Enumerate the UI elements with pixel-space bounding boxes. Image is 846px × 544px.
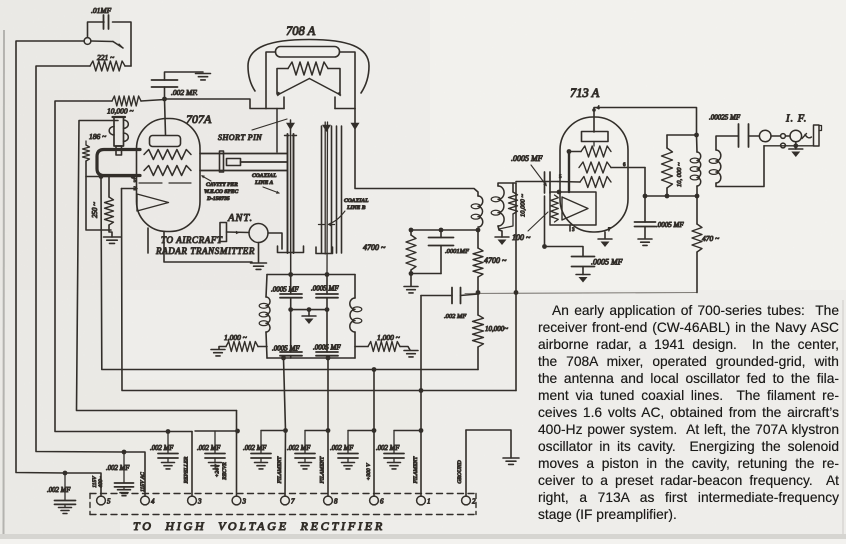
resistor R13 470 ohm body bbox=[692, 224, 702, 252]
node T7 rail tap bbox=[281, 356, 286, 361]
IF jack tip circle bbox=[790, 130, 802, 142]
coil L5 grid coil bbox=[498, 186, 504, 226]
svg-text:186 ~: 186 ~ bbox=[89, 132, 106, 141]
708A cathode tent right bbox=[309, 79, 340, 96]
scanner bottom edge band bbox=[0, 534, 846, 539]
svg-text:1: 1 bbox=[427, 498, 431, 506]
resistor 707A heater 2 bbox=[144, 166, 191, 176]
node 713A grid tie bbox=[567, 149, 572, 154]
wire L5 top bbox=[498, 183, 516, 186]
wire L3 bottom to rail bbox=[354, 332, 356, 358]
svg-text:1,000 ~: 1,000 ~ bbox=[377, 333, 400, 342]
resistor R1 221 ohm body bbox=[90, 61, 125, 71]
ground R5 bbox=[211, 350, 225, 356]
phone plug tip step bbox=[819, 126, 822, 131]
dashed terminal box bottom bbox=[90, 514, 476, 516]
capacitor C1 .01MF bbox=[104, 15, 109, 29]
node bus196 right bbox=[695, 194, 700, 199]
wire L2 top bbox=[266, 275, 267, 298]
capacitor C13 .002MF bypass T5 bbox=[64, 473, 66, 501]
svg-text:221 ~: 221 ~ bbox=[97, 53, 114, 62]
wire T1 stub to cap bbox=[394, 430, 421, 432]
708A leg short left bbox=[283, 97, 285, 109]
resistor R5 1000 ohm body bbox=[226, 342, 258, 352]
svg-text:.002 MF: .002 MF bbox=[47, 487, 71, 494]
terminal 4 circle bbox=[141, 496, 150, 505]
wire filter mid ground stem bbox=[308, 310, 310, 316]
wire filter mid rail bbox=[291, 309, 327, 311]
wire R1 right end to C1 branch bbox=[125, 65, 131, 67]
wire T6 stub to cap bbox=[348, 430, 374, 432]
terminal 3 circle bbox=[232, 496, 241, 505]
terminal switch pivot circle bbox=[84, 38, 91, 45]
wire C9 to cathode rail bbox=[544, 196, 546, 247]
svg-text:10, 000 ~: 10, 000 ~ bbox=[676, 162, 683, 187]
capacitor C18 .002MF bypass T8 bbox=[304, 431, 306, 454]
svg-text:10,000 ~: 10,000 ~ bbox=[520, 194, 527, 218]
708A leg bracket right bbox=[335, 108, 355, 110]
resistor 713A element 2 bbox=[579, 162, 611, 173]
wire C11 stem bbox=[644, 227, 646, 239]
wire T4 drop bbox=[124, 452, 145, 496]
svg-text:.0005 MF: .0005 MF bbox=[511, 154, 543, 163]
ground under cavity bbox=[104, 237, 121, 243]
node T4 cap tap bbox=[122, 450, 127, 455]
svg-text:.0005 MF: .0005 MF bbox=[591, 258, 623, 267]
wire bus L5 from R1 left down bbox=[36, 66, 124, 452]
node T7 junction bbox=[283, 428, 288, 433]
wire bus L6 from switch left and down bbox=[16, 41, 84, 473]
short pin inner bar bbox=[227, 159, 241, 166]
wire 707A cathode down to ground rail bbox=[164, 232, 252, 263]
node cavity tap 1 bbox=[99, 174, 104, 179]
svg-text:.0005 MF: .0005 MF bbox=[311, 285, 339, 293]
node cavity tap 2 bbox=[131, 174, 136, 179]
wire C4 top stem bbox=[326, 275, 328, 295]
wire R8 leads bbox=[477, 230, 479, 248]
pin number 4 dot bbox=[592, 108, 596, 112]
wire T1 drop from C8 bbox=[420, 296, 422, 497]
ground antenna bbox=[251, 263, 267, 269]
svg-text:.0005 MF: .0005 MF bbox=[272, 345, 300, 353]
wire C6 bottom stem bbox=[326, 356, 328, 358]
svg-text:ANT.: ANT. bbox=[227, 213, 253, 224]
wire C3 bottom stem bbox=[290, 298, 292, 310]
IF jack tip hook bbox=[802, 134, 812, 139]
wire R4 top bbox=[108, 177, 110, 198]
node T6 on repeller bus bbox=[372, 367, 377, 372]
svg-text:100 ~: 100 ~ bbox=[512, 233, 531, 242]
node T1 bus cross bbox=[419, 388, 424, 393]
wire C10 bottom stem bbox=[582, 267, 584, 275]
phone plug bar bbox=[814, 125, 820, 146]
wire T7 stub to cap bbox=[261, 430, 286, 432]
coil L3 filter right choke bbox=[350, 298, 355, 332]
wire plate feed rail y292 bbox=[465, 293, 697, 294]
wire filter top rail bbox=[267, 274, 355, 276]
terminal 2 circle bbox=[462, 496, 471, 505]
coil L7 IF secondary bbox=[716, 150, 721, 183]
svg-text:SHORT PIN: SHORT PIN bbox=[218, 133, 262, 142]
wire T3a drop bbox=[191, 432, 193, 497]
coil L6 IF primary bbox=[697, 152, 701, 186]
arrowhead tent left bbox=[278, 92, 282, 97]
resistor R3 186 ohm body bbox=[83, 145, 90, 161]
wire C2 top to ground bbox=[165, 72, 204, 80]
arrowhead coax A inner bbox=[286, 123, 295, 130]
svg-text:4700 ~: 4700 ~ bbox=[484, 256, 507, 265]
wire jack ground stem bbox=[795, 142, 797, 149]
wire R7 top stub bbox=[410, 230, 412, 235]
wire T8 stub to cap bbox=[305, 430, 328, 432]
arrowhead antenna feed bbox=[236, 231, 240, 235]
wire 708A right leg to IF coupling bbox=[355, 109, 478, 197]
svg-text:.002 MF: .002 MF bbox=[444, 313, 467, 320]
coax B outer right wall bbox=[331, 126, 333, 253]
capacitor C6 .0005MF lower bbox=[316, 352, 338, 356]
wire R13 leads bbox=[696, 196, 698, 224]
capacitor C17 .002MF bypass T7 bbox=[260, 431, 262, 454]
svg-text:707A: 707A bbox=[186, 112, 212, 126]
wire node A to 708A left leg bbox=[165, 99, 267, 109]
wire T5 drop bbox=[65, 473, 101, 496]
solenoid L1 body bbox=[114, 117, 124, 146]
ground T2 bbox=[503, 458, 519, 464]
wire R3 bottom to ground rail bbox=[86, 161, 111, 230]
resistor R9 10000 ohm body bbox=[473, 315, 484, 347]
wire C8 right lead bbox=[461, 294, 479, 296]
resistor R6 1000 ohm body bbox=[368, 342, 400, 352]
resistor R2 10000 ohm body bbox=[112, 96, 141, 106]
wire 708A filament right lead bbox=[328, 69, 340, 95]
node bus196 left bbox=[643, 194, 648, 199]
ground C11 bbox=[638, 239, 652, 245]
node rail x516 bbox=[514, 290, 519, 295]
wire C4 bottom stem bbox=[326, 298, 328, 310]
wire coax B inner conductor right bbox=[326, 122, 329, 275]
wire R12 leads bbox=[666, 135, 668, 148]
svg-text:3: 3 bbox=[242, 498, 247, 506]
node filter mid center bbox=[307, 307, 312, 312]
node R7 top bbox=[409, 228, 414, 233]
wire L6 leads bbox=[696, 135, 699, 152]
wire T8 drop bbox=[327, 431, 329, 497]
coax B bottom cup bbox=[316, 247, 333, 254]
wire coax B inner conductor left bbox=[324, 122, 326, 254]
wire 708A bar left lead bbox=[266, 52, 276, 109]
coax C wall right bbox=[341, 126, 343, 253]
solenoid L1 bump left middle bbox=[109, 127, 114, 135]
svg-text:5: 5 bbox=[107, 498, 111, 506]
resistor 707A heater 1 bbox=[144, 150, 191, 160]
tube 708A dome envelope bbox=[248, 40, 369, 94]
wire T3b drop bbox=[236, 411, 238, 497]
wire y230 rail bbox=[411, 229, 478, 231]
capacitor C7 .0001MF bbox=[429, 238, 454, 246]
wire filament drop left T7 bbox=[284, 358, 286, 431]
svg-text:.002 MF: .002 MF bbox=[197, 445, 221, 452]
707A grid dashes bbox=[139, 182, 162, 184]
wire R7 ground stub bbox=[410, 274, 412, 287]
svg-text:.002 MF: .002 MF bbox=[287, 445, 311, 452]
svg-text:D-150735: D-150735 bbox=[206, 196, 230, 202]
svg-text:10,000 ~: 10,000 ~ bbox=[107, 107, 134, 116]
capacitor C8 .002MF coupling bbox=[452, 288, 461, 304]
coax line A end cap bbox=[220, 151, 224, 172]
wire R2 right to node A bbox=[141, 100, 165, 102]
wire antenna circle to coax bbox=[268, 233, 282, 249]
tube 707A envelope bbox=[137, 119, 201, 232]
svg-text:+24V: +24V bbox=[215, 464, 221, 477]
solenoid L1 bump right upper bbox=[124, 120, 129, 128]
coax line A outer bottom plate bbox=[200, 170, 287, 172]
resistor R4 250 ohm body bbox=[105, 197, 114, 225]
svg-text:LINE A: LINE A bbox=[254, 180, 274, 186]
wire jack link 1 bbox=[771, 135, 781, 137]
svg-text:115V AC: 115V AC bbox=[140, 472, 146, 492]
node T5 cap tap bbox=[63, 471, 68, 476]
svg-text:.00025 MF: .00025 MF bbox=[709, 114, 741, 122]
solenoid L1 bump right lower bbox=[124, 133, 129, 141]
708A leg bracket left bbox=[266, 108, 284, 110]
ground R6 bbox=[404, 351, 418, 357]
scanner page left edge bbox=[3, 30, 6, 539]
wire cavity bottom rail with repeller taps bbox=[86, 176, 137, 178]
node T3a cap tap bbox=[166, 429, 171, 434]
wire 708A bar right lead bbox=[340, 52, 356, 109]
terminal 1 circle bbox=[417, 496, 426, 505]
switch blade bbox=[113, 42, 123, 49]
wire x645 screen lead bbox=[644, 168, 646, 223]
terminal 3 circle bbox=[188, 496, 197, 505]
wire T6 drop bbox=[373, 370, 375, 497]
svg-text:.002 MF: .002 MF bbox=[150, 445, 174, 452]
node A junction bbox=[162, 97, 167, 102]
svg-text:400~: 400~ bbox=[98, 476, 104, 487]
node plate feed top bbox=[694, 133, 699, 138]
svg-text:COAXIAL: COAXIAL bbox=[344, 198, 369, 204]
coax A outer left wall bbox=[287, 134, 289, 253]
terminal 5 circle bbox=[97, 496, 106, 505]
node T6 junction bbox=[372, 428, 377, 433]
svg-text:.0001MF: .0001MF bbox=[445, 248, 470, 255]
svg-text:708 A: 708 A bbox=[286, 24, 316, 38]
coax A top ticks bbox=[285, 135, 290, 137]
708A leg short right bbox=[334, 97, 336, 109]
wire antenna feed bbox=[227, 231, 250, 234]
svg-text:250 ~: 250 ~ bbox=[91, 202, 99, 218]
svg-text:470 ~: 470 ~ bbox=[702, 234, 719, 243]
IF jack lower rail bbox=[764, 145, 814, 147]
wire plate load top rail bbox=[667, 134, 697, 136]
svg-text:COAXIAL: COAXIAL bbox=[252, 173, 277, 179]
antenna feed block bbox=[220, 223, 227, 242]
capacitor C9 .0005MF grid plates bbox=[544, 172, 546, 193]
dashed terminal box left bbox=[89, 494, 91, 515]
node coax B inner to filter bbox=[325, 272, 330, 277]
707A plate cap bbox=[150, 136, 181, 147]
svg-text:.0005 MF: .0005 MF bbox=[656, 221, 684, 229]
leader 100 ohm bbox=[528, 212, 548, 231]
resistor R7 4700 ohm body bbox=[406, 235, 416, 270]
node T8 junction bbox=[326, 428, 331, 433]
wire 708A left leg to coax A feed bbox=[276, 109, 278, 153]
leader cavity label arrow bbox=[202, 176, 211, 181]
ground for R7 bbox=[404, 287, 418, 293]
708A cathode tent left bbox=[278, 79, 310, 96]
solenoid plunger piston bbox=[116, 146, 122, 155]
wire T2 ground link bbox=[465, 430, 467, 496]
resistor R12 10000 ohm plate load bbox=[662, 148, 673, 188]
wire 713A bottom pin7 stem bbox=[604, 232, 606, 238]
wire L7 top to C12 bbox=[716, 136, 739, 150]
wire switch pivot to blade bbox=[91, 40, 113, 43]
svg-text:3: 3 bbox=[197, 498, 202, 506]
ground IF jack arrow bbox=[789, 148, 803, 150]
wire bus L4 from R2 left down bbox=[55, 101, 192, 432]
node cathode rail left bbox=[542, 244, 547, 249]
capacitor C16 .002MF bypass T3b bbox=[214, 431, 216, 453]
wire R4 bottom to ground bbox=[109, 225, 112, 237]
capacitor C4 .0005MF bbox=[316, 294, 338, 298]
svg-text:FILAMENT: FILAMENT bbox=[320, 456, 326, 485]
wire element1 left lead bbox=[569, 151, 581, 153]
svg-text:LINE B: LINE B bbox=[346, 205, 366, 211]
wire element3 left lead pin5 bbox=[558, 181, 580, 184]
wire bus y196 bbox=[645, 195, 697, 197]
coax B outer left wall bbox=[321, 126, 323, 253]
svg-text:TO HIGH VOLTAGE RECTIFIER: TO HIGH VOLTAGE RECTIFIER bbox=[133, 519, 385, 533]
svg-text:6: 6 bbox=[380, 498, 384, 506]
node coax A inner to filter bbox=[288, 272, 293, 277]
wire grid line x516 bbox=[515, 183, 517, 391]
resistor 708A filament zigzag bbox=[288, 62, 328, 75]
coil L4 coupling primary bbox=[478, 196, 483, 227]
svg-text:FILAMENT: FILAMENT bbox=[277, 456, 283, 485]
wire T7 drop bbox=[284, 431, 287, 497]
wire bus L3 to solenoid top bbox=[77, 121, 237, 411]
wire L5 bottom to ground bbox=[498, 226, 502, 237]
svg-text:7: 7 bbox=[291, 498, 295, 506]
wire .01MF right lead down to switch contact bbox=[113, 22, 132, 66]
coax C wall left bbox=[336, 126, 338, 253]
wire C3 top stem bbox=[290, 275, 292, 295]
leader C9 arrow bbox=[531, 165, 546, 185]
wire filter bottom rail bbox=[267, 357, 355, 359]
wire L7 bottom return bbox=[716, 146, 764, 187]
wire R5 left to ground bbox=[219, 347, 226, 350]
wire L2 bottom to rail bbox=[266, 332, 267, 358]
svg-text:GROUND: GROUND bbox=[457, 460, 463, 483]
solenoid L1 top cap bbox=[113, 116, 126, 118]
arrowhead coax B inner bbox=[322, 125, 331, 132]
wire grid wire to 713A bbox=[516, 181, 558, 183]
coax line A outer top plate bbox=[200, 153, 287, 155]
707A cathode triangle bbox=[137, 194, 169, 211]
node filter mid left bbox=[288, 307, 293, 312]
wire bus L2 repeller line down bbox=[101, 177, 478, 370]
antenna coupling circle bbox=[249, 224, 268, 243]
wire C8 left lead bbox=[421, 295, 452, 297]
node filter mid right bbox=[325, 307, 330, 312]
wire R10 leads bbox=[512, 183, 514, 192]
ground 713A bottom arrow bbox=[598, 238, 612, 240]
wire element2 right lead pin6 bbox=[611, 167, 645, 169]
svg-text:.002 MF.: .002 MF. bbox=[171, 88, 198, 97]
capacitor C14 .002MF bypass T4 bbox=[123, 452, 125, 483]
wire R6 right to ground bbox=[400, 347, 410, 351]
wire R6 left lead bbox=[355, 346, 368, 348]
svg-text:.0005 MF: .0005 MF bbox=[271, 286, 299, 294]
svg-text:1,000 ~: 1,000 ~ bbox=[224, 333, 247, 342]
capacitor C19 .002MF bypass T6 bbox=[347, 431, 349, 454]
klystron cavity block bbox=[97, 150, 140, 176]
svg-text:I. F.: I. F. bbox=[785, 114, 807, 125]
dashed terminal box top bbox=[90, 493, 476, 495]
node L4 bottom bbox=[476, 228, 481, 233]
wire C7 stems bbox=[440, 230, 442, 238]
wire 713A thick grid line bbox=[568, 152, 570, 193]
svg-text:.002 MF: .002 MF bbox=[330, 445, 354, 452]
svg-text:RECVR: RECVR bbox=[222, 462, 228, 481]
svg-text:REPELLER: REPELLER bbox=[184, 456, 190, 484]
713A cathode triangle bbox=[562, 197, 588, 220]
wire jack link 2 bbox=[785, 135, 790, 137]
wire C5 top stem bbox=[290, 310, 292, 352]
wire antenna ground stem bbox=[258, 243, 260, 263]
wire node A to 707A plate bbox=[165, 99, 166, 135]
IF jack small circle upper bbox=[781, 134, 786, 139]
leader short pin bbox=[252, 119, 287, 130]
node jack ground bbox=[793, 143, 798, 148]
arrowhead on right leg wire bbox=[351, 123, 360, 130]
resistor R10 10000 ohm grid leak bbox=[509, 192, 518, 214]
capacitor C10 .0005MF cathode bbox=[572, 257, 595, 267]
wire C5 bottom stem bbox=[290, 356, 292, 358]
wire C12 to jack bbox=[749, 135, 760, 137]
arrowhead tent right bbox=[337, 92, 341, 97]
resistor R11 100 ohm body bbox=[551, 195, 559, 222]
coil L2 filter left choke bbox=[266, 297, 270, 332]
713A plate bar bbox=[582, 132, 609, 142]
capacitor C15 .002MF bypass T3a bbox=[167, 432, 169, 454]
svg-text:W.E.CO SPEC: W.E.CO SPEC bbox=[204, 189, 239, 195]
svg-text:10,000~: 10,000~ bbox=[485, 325, 508, 333]
resistor R8 4700 ohm body bbox=[473, 248, 483, 277]
coax B break ticks bbox=[319, 224, 325, 226]
svg-text:RADAR TRANSMITTER: RADAR TRANSMITTER bbox=[155, 246, 255, 256]
svg-text:CAVITY PER: CAVITY PER bbox=[206, 182, 238, 188]
svg-text:.01MF: .01MF bbox=[91, 6, 112, 15]
wire y431 stub segment bbox=[195, 430, 238, 432]
svg-text:+300 V: +300 V bbox=[366, 463, 372, 481]
wire L3 top bbox=[354, 275, 356, 299]
wire R3 top stub bbox=[85, 141, 87, 145]
ground for C2 bbox=[196, 74, 211, 80]
node C7 top bbox=[439, 228, 444, 233]
wire coax A inner conductor bbox=[290, 120, 292, 275]
svg-text:FILAMENT: FILAMENT bbox=[413, 456, 419, 485]
wire top-left .01MF loop left lead bbox=[88, 22, 105, 37]
wire cathode rail y246 bbox=[545, 247, 584, 257]
tube 713A envelope bbox=[560, 117, 628, 232]
resistor 713A element 1 bbox=[581, 146, 611, 157]
wire C2 bottom to node A bbox=[164, 87, 166, 99]
capacitor C20 .002MF bypass T1 bbox=[393, 431, 395, 454]
coax A bottom cup bbox=[278, 246, 304, 253]
ground filter center arrow bbox=[302, 315, 316, 317]
713A cathode box bbox=[550, 192, 596, 225]
